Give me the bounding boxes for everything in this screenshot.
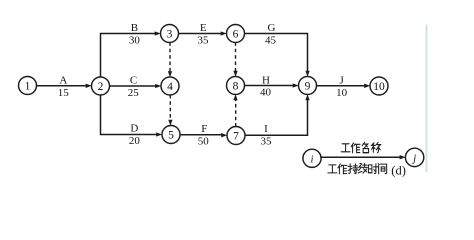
glyph chi	[348, 164, 358, 174]
svg-text:10: 10	[373, 81, 385, 93]
svg-text:2: 2	[98, 81, 104, 93]
node 5	[162, 126, 180, 144]
wire I 7-9	[245, 100, 308, 135]
legend node j	[405, 148, 423, 166]
svg-text:F: F	[201, 123, 207, 135]
wire G 6-9	[244, 34, 307, 72]
wire H 8-9	[244, 85, 293, 87]
glyph zuo2	[338, 164, 347, 174]
svg-text:H: H	[262, 74, 270, 86]
svg-text:A: A	[59, 74, 67, 86]
glyph xu	[358, 163, 367, 173]
svg-text:6: 6	[233, 29, 239, 41]
svg-text:3: 3	[167, 29, 173, 41]
node 1	[19, 77, 37, 95]
dummy arrow 3-4	[169, 42, 171, 71]
glyph cheng	[371, 142, 381, 153]
glyph zuo	[351, 143, 360, 153]
svg-text:G: G	[268, 22, 276, 34]
glyph ming	[362, 142, 369, 153]
node 8	[227, 77, 245, 95]
glyph jian	[378, 164, 387, 174]
wire B 2-3	[101, 34, 156, 78]
wire D 2-5	[101, 95, 157, 135]
legend wire i-j	[320, 156, 400, 158]
wire A 1-2	[36, 85, 86, 87]
svg-text:E: E	[200, 22, 207, 34]
svg-text:35: 35	[261, 135, 273, 147]
svg-text:9: 9	[305, 81, 311, 93]
node 7	[227, 127, 245, 145]
svg-text:7: 7	[233, 131, 239, 143]
node 3	[161, 25, 179, 43]
legend node i	[303, 149, 321, 167]
table rule (light blue vertical line at right)	[426, 25, 428, 173]
svg-text:35: 35	[198, 35, 210, 47]
svg-text:50: 50	[198, 135, 210, 147]
svg-text:1: 1	[25, 81, 31, 93]
node 2	[92, 77, 110, 95]
svg-text:B: B	[131, 22, 138, 34]
svg-text:5: 5	[168, 130, 174, 142]
svg-text:D: D	[130, 123, 138, 135]
svg-text:40: 40	[260, 86, 272, 98]
svg-text:j: j	[411, 152, 416, 164]
wire C 2-4	[109, 85, 155, 87]
wire J 9-10	[316, 85, 364, 87]
svg-text:i: i	[310, 153, 313, 165]
node 6	[227, 25, 245, 43]
legend caption: 工作持续时间 (d)	[328, 163, 406, 177]
svg-text:4: 4	[167, 81, 173, 93]
dummy arrow 6-8	[235, 42, 237, 71]
dummy arrow 7-8	[235, 100, 237, 127]
wire E 3-6	[178, 33, 221, 35]
glyph gong2	[328, 165, 337, 173]
svg-text:20: 20	[129, 135, 141, 147]
wire F 5-7	[180, 134, 222, 136]
node 10	[370, 77, 388, 95]
dummy arrow 4-5	[169, 95, 171, 120]
svg-text:15: 15	[58, 87, 70, 99]
svg-text:I: I	[264, 123, 268, 135]
svg-text:25: 25	[128, 87, 140, 99]
svg-text:10: 10	[336, 87, 348, 99]
svg-text:J: J	[340, 74, 345, 86]
svg-text:45: 45	[265, 35, 277, 47]
node 4	[161, 77, 179, 95]
svg-text:(d): (d)	[391, 164, 406, 178]
node 9	[299, 77, 317, 95]
legend caption: 工作名称	[341, 142, 381, 153]
glyph shi	[368, 164, 378, 174]
svg-text:30: 30	[129, 35, 141, 47]
svg-text:C: C	[130, 74, 137, 86]
glyph gong	[341, 144, 350, 152]
svg-text:8: 8	[233, 81, 239, 93]
